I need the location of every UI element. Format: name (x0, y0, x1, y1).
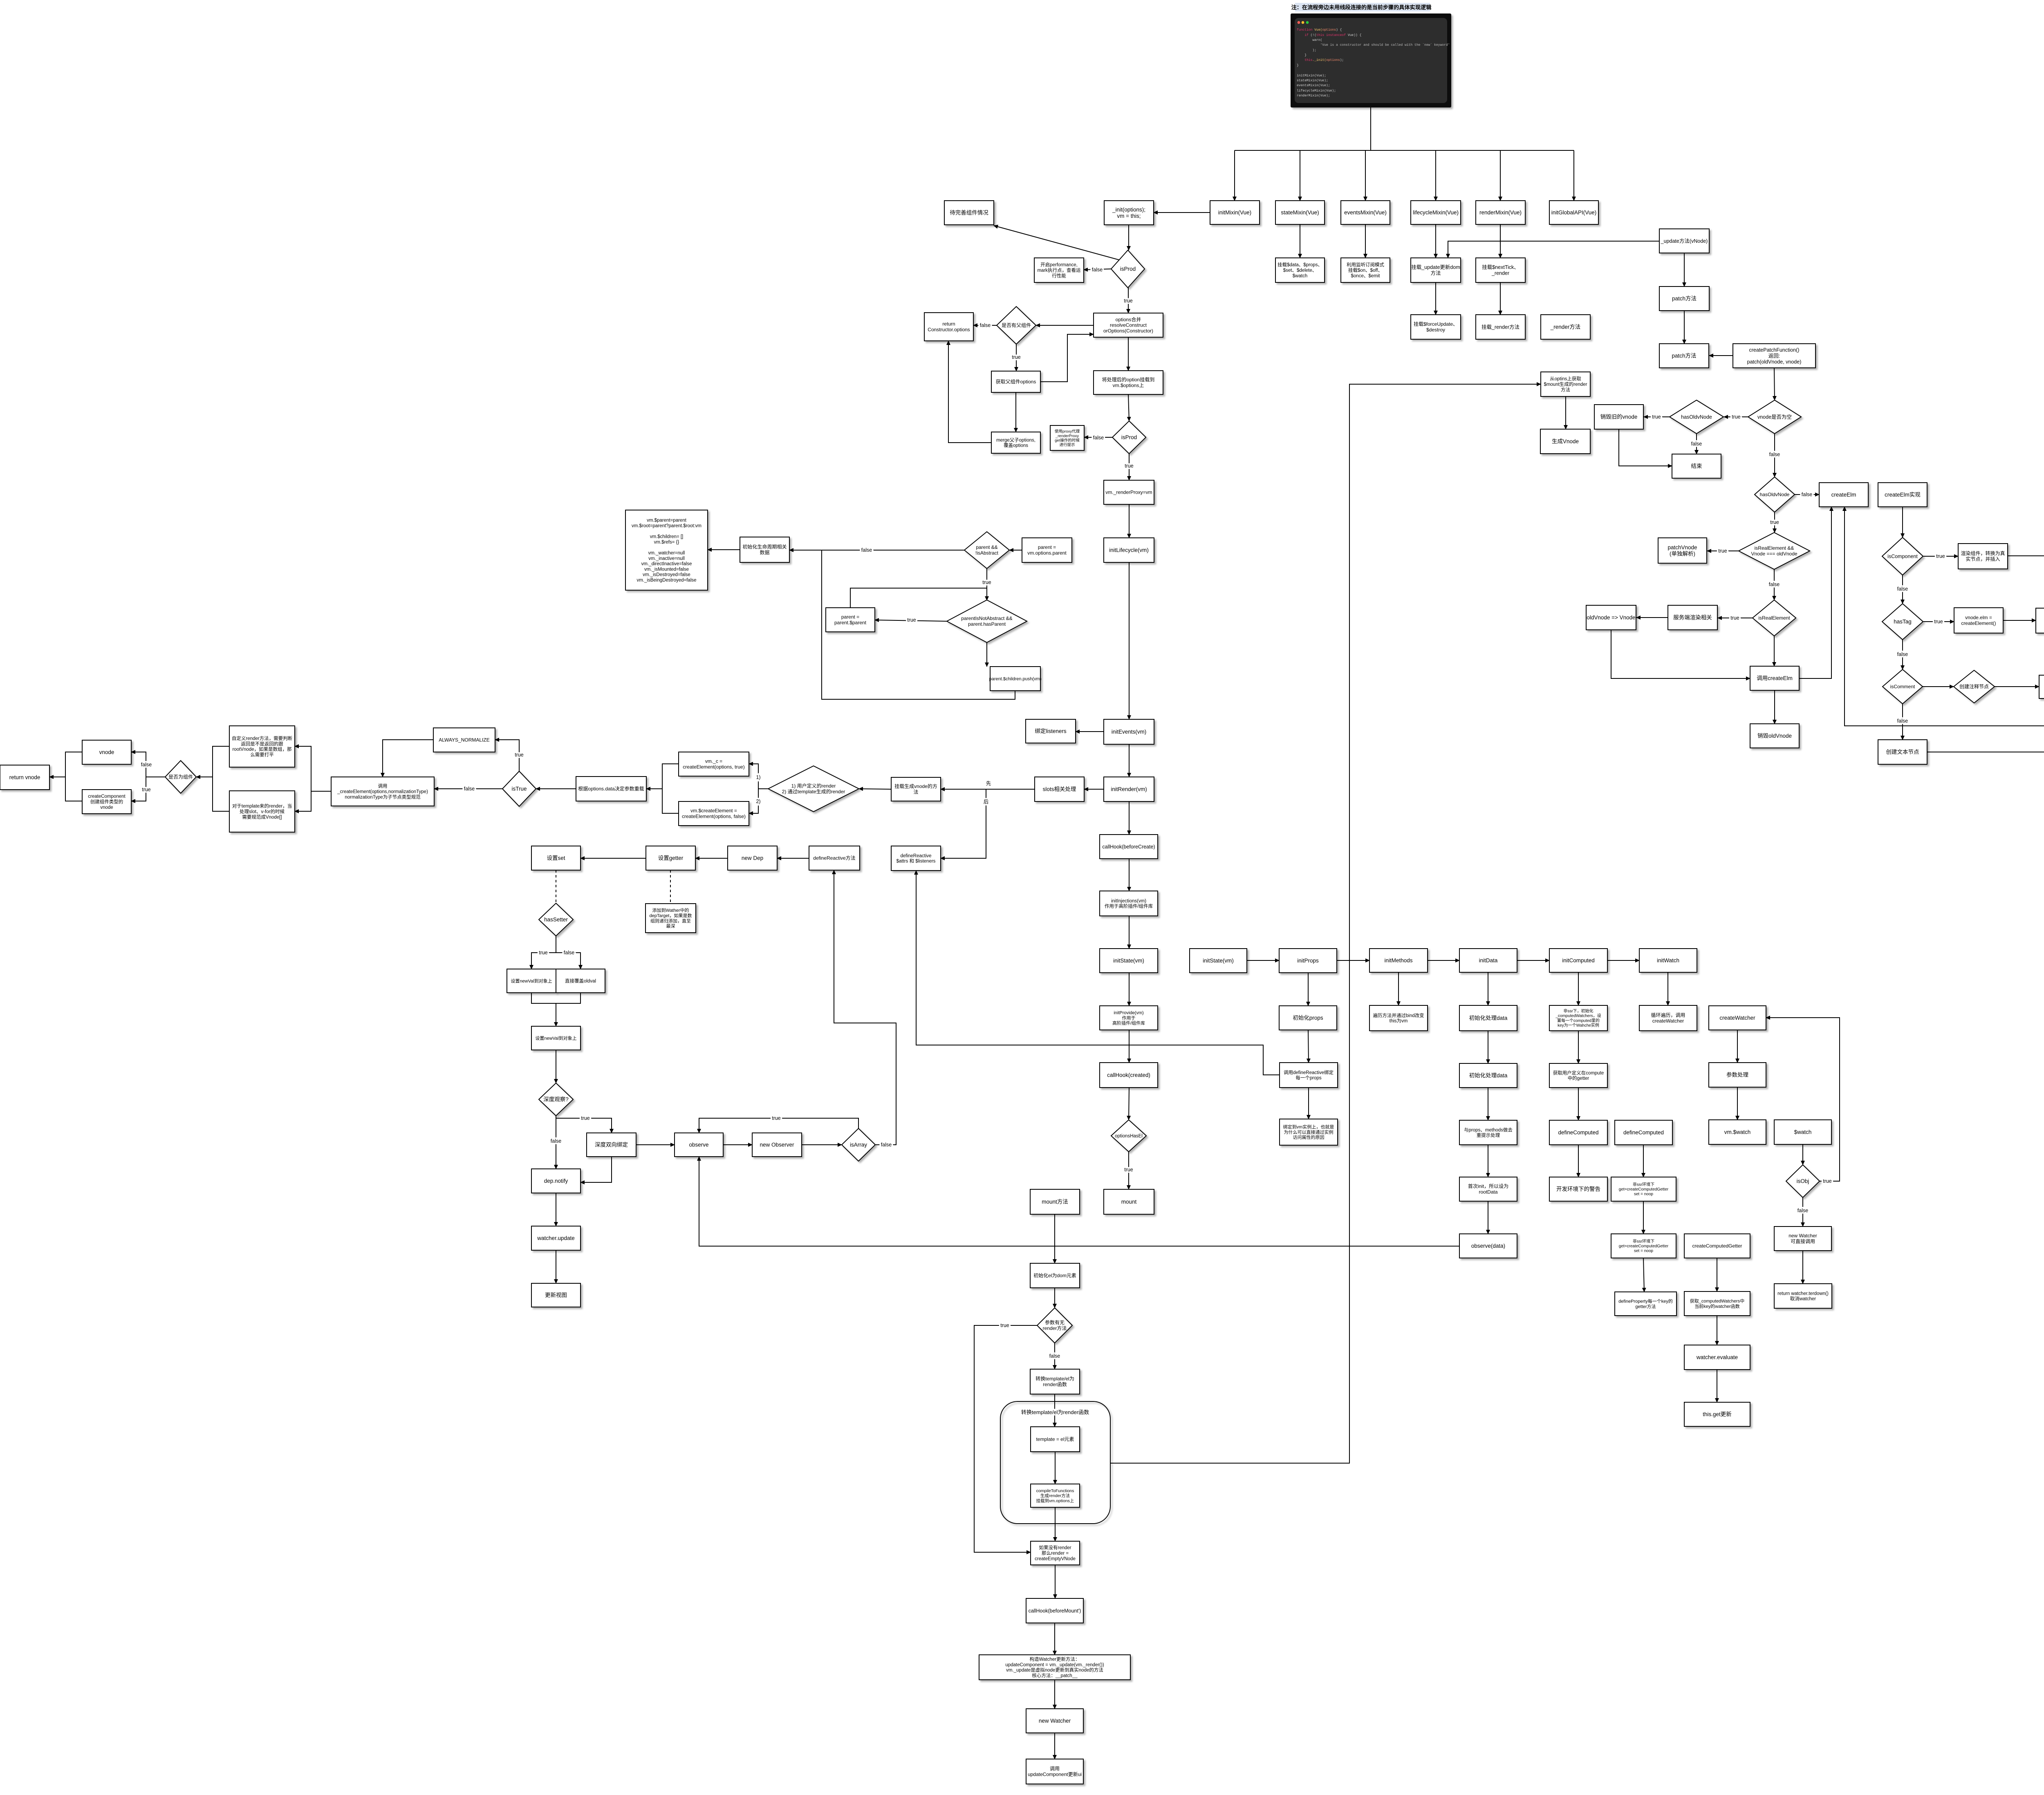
wire (213, 746, 229, 777)
wire (1129, 562, 1130, 719)
wire (556, 870, 556, 903)
wire (1488, 1145, 1488, 1177)
svg-text:isObj: isObj (1797, 1178, 1809, 1184)
wire isArray false-&gt;defineReactive (834, 870, 896, 1145)
wire (1902, 575, 1903, 604)
节点 自定义render方法，需要判断 (229, 726, 295, 767)
wire 调用defineReactive-&gt;$attrs (916, 871, 1280, 1075)
svg-text:ALWAYS_NORMALIZE: ALWAYS_NORMALIZE (439, 737, 489, 743)
svg-text:true: true (1652, 414, 1661, 420)
wire (1128, 394, 1129, 421)
节点 开发环境下的警告 (1549, 1177, 1607, 1201)
wire (1084, 437, 1112, 438)
svg-text:lifecycleMixin(Vue): lifecycleMixin(Vue) (1413, 210, 1459, 216)
节点 直接覆盖oldval (556, 969, 605, 993)
节点 利用监听订阅模式 (1341, 258, 1390, 282)
节点 defineComputed (1549, 1120, 1607, 1145)
wire (1398, 972, 1399, 1005)
wire (986, 642, 987, 667)
节点 参数处理 (1709, 1063, 1766, 1087)
节点 挂载生成vnode的方 (891, 777, 941, 801)
svg-text:调用createElm: 调用createElm (1757, 675, 1793, 681)
svg-text:true: true (1732, 414, 1741, 420)
节点 非ssr环境下 (1611, 1177, 1676, 1201)
wire (1774, 690, 1775, 724)
svg-text:initLifecycle(vm): initLifecycle(vm) (1109, 547, 1149, 553)
svg-text:false: false (1092, 267, 1103, 273)
wire (1076, 731, 1104, 732)
svg-text:}: } (1297, 54, 1307, 57)
svg-text:利用监听订阅模式挂载$on、$off、$once、$emit: 利用监听订阅模式挂载$on、$off、$once、$emit (1347, 262, 1384, 279)
svg-text:observe: observe (689, 1142, 708, 1148)
节点 挂载_update更新dom (1411, 258, 1461, 282)
svg-text:初始化props: 初始化props (1293, 1014, 1323, 1021)
wire 调用createElm-&gt;createElm (1799, 507, 1831, 678)
wire (875, 620, 947, 621)
wire (1370, 107, 1371, 150)
wire (556, 1050, 556, 1083)
节点 挂载$forceUpdate、 (1411, 315, 1461, 339)
节点 开启performance, (1034, 258, 1084, 282)
节点 patch方法 (1659, 286, 1709, 311)
节点 parent.$children.push(vm) (990, 667, 1040, 691)
节点 调用 (1026, 1759, 1083, 1784)
svg-text:stateMixin(Vue): stateMixin(Vue) (1281, 210, 1319, 216)
判断 vnode是否为空 (1748, 400, 1801, 434)
节点 调用defineReactive绑定 (1280, 1063, 1338, 1088)
节点 服务端渲染相关 (1668, 605, 1717, 630)
wire observe(data)-&gt;observe (699, 1157, 1459, 1246)
wire (1607, 960, 1639, 961)
svg-text:设置newVal到对象上: 设置newVal到对象上 (511, 978, 552, 984)
节点 watcher.update (531, 1226, 580, 1250)
svg-text:false: false (1769, 582, 1780, 587)
wire (1902, 507, 1903, 537)
wire (1054, 1394, 1055, 1427)
svg-text:warn(: warn( (1297, 38, 1322, 42)
svg-text:true: true (1124, 298, 1133, 304)
wire (1774, 636, 1775, 666)
wire (1365, 224, 1366, 258)
wire (1684, 311, 1685, 344)
wire (531, 953, 556, 969)
节点 options合并 (1094, 313, 1163, 337)
wire (1902, 704, 1903, 740)
svg-text:isRealElement: isRealElement (1758, 615, 1790, 621)
节点 stateMixin(Vue) (1275, 201, 1325, 224)
wire (1055, 1452, 1056, 1484)
wire (1707, 551, 1739, 551)
wire (1737, 1087, 1738, 1120)
wire (1643, 1201, 1644, 1234)
wire (536, 788, 576, 789)
wire (1667, 972, 1668, 1005)
wire (556, 1250, 556, 1283)
判断 isProd (1111, 250, 1145, 288)
svg-text:new Watcher: new Watcher (1039, 1718, 1071, 1724)
wire (65, 752, 82, 777)
svg-text:创建文本节点: 创建文本节点 (1886, 749, 1919, 755)
svg-text:isRealElement &&Vnode === oldV: isRealElement &&Vnode === oldVnode (1751, 545, 1797, 557)
判断 isObj (1786, 1165, 1820, 1197)
节点 parent = (826, 608, 875, 632)
wire isObj-&gt;createWatcher (1766, 1018, 1840, 1181)
wire (749, 789, 758, 813)
svg-text:new Dep: new Dep (742, 855, 763, 861)
节点 initState(vm) (1190, 949, 1247, 973)
wire (1774, 434, 1775, 477)
svg-text:是否为组件: 是否为组件 (168, 774, 193, 780)
svg-text:false: false (980, 322, 991, 328)
节点 createPatchFunction() (1733, 344, 1815, 368)
节点 slots相关处理 (1035, 777, 1084, 801)
svg-text:设置set: 设置set (547, 855, 565, 861)
判断 parentIsNotAbstract &amp;&amp; (947, 600, 1027, 642)
wire (1009, 550, 1022, 551)
节点 createElm实现 (1878, 483, 1927, 507)
svg-text:optionsHasEl: optionsHasEl (1115, 1134, 1143, 1139)
svg-text:true: true (1770, 519, 1779, 525)
svg-text:false: false (564, 950, 574, 956)
svg-text:销毁旧的vnode: 销毁旧的vnode (1600, 414, 1638, 420)
节点 设置getter (646, 846, 695, 870)
svg-text:false: false (1049, 1353, 1060, 1359)
wire (859, 789, 891, 789)
节点 获取父组件options (991, 371, 1040, 392)
节点 defineReactive方法 (809, 846, 860, 870)
wire (1365, 150, 1366, 201)
节点 调用 (331, 777, 434, 806)
svg-text:1) 用户定义的render2) 通过template生成的: 1) 用户定义的render2) 通过template生成的render (782, 783, 845, 795)
wire (1517, 960, 1549, 961)
节点 初始化处理data (1459, 1005, 1517, 1031)
wire (1234, 150, 1235, 201)
节点 initLifecycle(vm) (1104, 538, 1154, 562)
节点 结束 (1672, 454, 1721, 478)
节点 绑定listeners (1026, 719, 1076, 743)
wire (1015, 392, 1016, 432)
wire (2003, 620, 2036, 621)
节点 初始化props (1279, 1006, 1337, 1030)
wire (1802, 1197, 1803, 1227)
节点 转换template/el为 (1030, 1369, 1080, 1394)
svg-text:initRender(vm): initRender(vm) (1111, 786, 1147, 792)
wire (531, 993, 580, 1003)
节点 挂载$data、$props、 (1275, 258, 1325, 282)
wire (131, 752, 146, 777)
wire (695, 858, 728, 859)
svg-text:false: false (1797, 1208, 1808, 1213)
svg-text:true: true (1934, 619, 1943, 624)
wire (986, 568, 987, 600)
wire (1795, 494, 1819, 495)
wire (1737, 1030, 1738, 1063)
wire (580, 858, 646, 859)
节点 initGlobalAPI(Vue) (1549, 201, 1598, 224)
wire (295, 746, 311, 791)
svg-text:isTrue: isTrue (511, 786, 527, 792)
svg-text:创建注释节点: 创建注释节点 (1959, 683, 1989, 689)
wire (1488, 1201, 1488, 1234)
svg-text:eventsMixin(Vue);: eventsMixin(Vue); (1297, 84, 1330, 87)
svg-text:$watch: $watch (1794, 1129, 1812, 1135)
svg-text:hasTag: hasTag (1894, 619, 1912, 625)
节点 createComputedGetter (1684, 1234, 1750, 1258)
wire (850, 588, 987, 608)
wire (1054, 1343, 1055, 1369)
svg-text:callHook(created): callHook(created) (1107, 1072, 1150, 1078)
wire (948, 341, 991, 443)
wire 后-&gt;defineReactive$attrs (941, 789, 986, 858)
svg-text:待完善组件情况: 待完善组件情况 (950, 210, 988, 216)
svg-text:false: false (1897, 718, 1908, 724)
svg-text:true: true (1823, 1178, 1832, 1184)
节点 initState(vm) (1100, 949, 1158, 973)
节点 setScope (2036, 608, 2044, 633)
wire (1084, 269, 1111, 270)
节点 mount方法 (1030, 1189, 1080, 1214)
svg-text:defineComputed: defineComputed (1623, 1130, 1664, 1136)
wire (1488, 972, 1488, 1005)
wire (65, 777, 82, 801)
wire (1308, 1030, 1309, 1063)
判断 参数有无 (1037, 1308, 1072, 1343)
svg-text:);: ); (1297, 49, 1316, 52)
svg-text:isComment: isComment (1890, 684, 1915, 689)
svg-text:1): 1) (756, 774, 760, 780)
wire (1435, 224, 1436, 258)
wire (1129, 454, 1130, 480)
节点 initData (1459, 949, 1517, 972)
wire (1774, 368, 1775, 400)
节点 渲染组件，转换为真 (1958, 544, 2008, 569)
wire (1902, 640, 1903, 669)
wire (1578, 972, 1579, 1005)
wire (1128, 224, 1129, 250)
节点 添加到Wather中的 (645, 904, 696, 933)
wire (1128, 1152, 1129, 1189)
wire (1428, 960, 1459, 961)
svg-text:lifecycleMixin(Vue);: lifecycleMixin(Vue); (1297, 89, 1336, 93)
节点 挂载_render方法 (1476, 315, 1525, 339)
节点 设置newVal到对象上 (531, 1026, 580, 1050)
wire (131, 777, 146, 801)
svg-text:initWatch: initWatch (1657, 958, 1679, 964)
wire (1636, 617, 1668, 618)
wire (1129, 973, 1130, 1006)
节点 createComponent (82, 790, 131, 814)
判断 isTrue (502, 771, 536, 806)
svg-text:获取_computedWatchers中当前key的watc: 获取_computedWatchers中当前key的watcher函数 (1690, 1298, 1744, 1309)
节点 从optins上获取 (1541, 372, 1590, 396)
wire (495, 740, 519, 771)
wire (1128, 337, 1129, 371)
节点 深度双向绑定 (587, 1133, 636, 1157)
wire isProd-&gt;待完善组件情况 (994, 226, 1119, 260)
svg-text:initState(vm): initState(vm) (1113, 958, 1144, 964)
节点 更新视图 (531, 1283, 580, 1307)
wire (1774, 569, 1775, 600)
svg-text:if (!(this instanceof Vue)) {: if (!(this instanceof Vue)) { (1297, 34, 1362, 37)
节点 _render方法 (1541, 315, 1590, 339)
svg-text:initState(vm): initState(vm) (1203, 958, 1234, 964)
wire 渲染组件-&gt;insert窗口 (2008, 492, 2044, 556)
svg-text:_render方法: _render方法 (1550, 324, 1581, 330)
svg-text:生成Vnode: 生成Vnode (1552, 439, 1579, 445)
节点 销毁旧的vnode (1594, 405, 1643, 429)
svg-text:是否有父组件: 是否有父组件 (1002, 322, 1031, 328)
wire (1643, 1145, 1644, 1177)
节点 循环遍历，调用 (1639, 1005, 1697, 1031)
svg-text:parent &&!isAbstract: parent &&!isAbstract (975, 544, 999, 556)
节点 initRender(vm) (1104, 777, 1154, 801)
svg-text:slots相关处理: slots相关处理 (1043, 786, 1076, 792)
svg-text:isComponent: isComponent (1887, 553, 1918, 559)
svg-text:挂载_render方法: 挂载_render方法 (1481, 324, 1520, 330)
svg-text:vm.$createElement =createEleme: vm.$createElement =createElement(options… (682, 808, 746, 819)
节点 遍历方法并通过bind改变 (1369, 1005, 1428, 1031)
wire (1923, 556, 1958, 557)
svg-text:true: true (581, 1115, 590, 1121)
svg-text:callHook(beforeMount'): callHook(beforeMount') (1029, 1608, 1081, 1614)
svg-text:参数有无render方法: 参数有无render方法 (1043, 1319, 1067, 1331)
svg-text:直接覆盖oldval: 直接覆盖oldval (565, 978, 596, 984)
wire (1717, 1258, 1717, 1291)
svg-text:initEvents(vm): initEvents(vm) (1112, 729, 1147, 735)
节点 _update方法(vNode) (1659, 229, 1709, 253)
节点 createWatcher (1709, 1006, 1766, 1030)
svg-text:渲染组件，转换为真实节点，并插入: 渲染组件，转换为真实节点，并插入 (1961, 550, 2005, 562)
节点 renderMixin(Vue) (1476, 201, 1525, 224)
wire (580, 1157, 612, 1182)
节点 parent = (1022, 538, 1072, 562)
svg-text:initProps: initProps (1297, 958, 1319, 964)
节点 待完善组件情况 (944, 201, 994, 225)
节点 initMethods (1369, 949, 1428, 972)
wire (1036, 325, 1094, 326)
svg-text:mount: mount (1121, 1199, 1137, 1205)
svg-text:获取父组件options: 获取父组件options (996, 379, 1036, 385)
wire (1565, 396, 1566, 429)
节点 ALWAYS_NORMALIZE (433, 728, 495, 752)
wire (723, 1144, 752, 1145)
svg-text:parentIsNotAbstract &&parent.h: parentIsNotAbstract &&parent.hasParent (961, 615, 1012, 627)
svg-text:true: true (907, 617, 916, 623)
wire (1573, 150, 1574, 201)
svg-text:初始化处理data: 初始化处理data (1469, 1015, 1508, 1021)
svg-text:true: true (515, 752, 524, 758)
节点 initComputed (1549, 949, 1607, 972)
svg-text:hasOldvNode: hasOldvNode (1681, 414, 1712, 420)
节点 initProvide(vm) (1100, 1006, 1158, 1030)
节点 new Watcher (1774, 1227, 1831, 1251)
svg-text:parent.$children.push(vm): parent.$children.push(vm) (989, 676, 1042, 681)
wire (1247, 960, 1279, 961)
svg-text:销毁oldVnode: 销毁oldVnode (1757, 733, 1792, 739)
wire (1308, 1088, 1309, 1119)
svg-text:false: false (1897, 586, 1908, 592)
节点 vm._renderProxy=vm (1104, 480, 1154, 504)
wire (1337, 960, 1369, 961)
svg-text:this.get更新: this.get更新 (1703, 1411, 1732, 1417)
容器 转换template/el为render函数 (1000, 1401, 1110, 1524)
wire (295, 791, 311, 811)
节点 vnode.elm = (1954, 608, 2003, 633)
wire (1488, 1031, 1488, 1063)
节点 设置set (531, 846, 580, 870)
判断 是否为组件 (165, 761, 196, 793)
svg-text:_update方法(vNode): _update方法(vNode) (1661, 238, 1708, 244)
wire 参数true-&gt;如果没有render (974, 1325, 1037, 1552)
svg-text:根据options.data决定参数重载: 根据options.data决定参数重载 (578, 786, 644, 792)
svg-text:initData: initData (1479, 958, 1498, 964)
wire (1129, 916, 1130, 949)
节点 非ssr环境下 (1611, 1234, 1676, 1258)
wire (662, 789, 679, 813)
wire (556, 1193, 556, 1226)
wire (1724, 416, 1748, 417)
svg-text:false: false (1802, 492, 1812, 497)
svg-text:stateMixin(Vue);: stateMixin(Vue); (1297, 79, 1328, 83)
wire (1129, 744, 1130, 777)
节点 调用insert (2039, 675, 2044, 698)
节点 vnode (82, 740, 131, 764)
节点 _init(options); (1104, 201, 1154, 225)
wire (1500, 150, 1501, 201)
svg-text:false: false (1769, 452, 1780, 457)
节点 defineProperty每一个key的 (1615, 1292, 1676, 1316)
wire (1300, 150, 1300, 201)
svg-text:renderMixin(Vue);: renderMixin(Vue); (1297, 94, 1330, 98)
节点 oldVnode =&gt; Vnode (1586, 605, 1636, 630)
svg-text:更新视图: 更新视图 (545, 1292, 567, 1298)
svg-text:initGlobalAPI(Vue): initGlobalAPI(Vue) (1551, 210, 1597, 216)
节点 dep.notify (531, 1169, 580, 1193)
判断 parent &amp;&amp; (964, 532, 1009, 568)
wire (213, 777, 229, 811)
svg-text:vnode是否为空: vnode是否为空 (1757, 414, 1792, 420)
wire (1500, 282, 1501, 315)
svg-text:initMethods: initMethods (1384, 958, 1412, 964)
节点 return watcher.terdown() (1774, 1284, 1832, 1308)
wire (556, 953, 580, 969)
svg-text:new Observer: new Observer (760, 1142, 794, 1148)
节点 callHook(beforeCreate) (1100, 835, 1158, 859)
svg-text:patch方法: patch方法 (1672, 353, 1696, 359)
svg-text:compileToFunctions生成render方法挂载: compileToFunctions生成render方法挂载到vm.option… (1036, 1488, 1074, 1503)
wire (383, 740, 433, 777)
svg-text:function Vue(options) {: function Vue(options) { (1297, 28, 1342, 32)
svg-text:注：在流程旁边未用线段连接的是当前步骤的具体实现逻辑: 注：在流程旁边未用线段连接的是当前步骤的具体实现逻辑 (1291, 4, 1432, 11)
节点 初始化el为dom元素 (1030, 1263, 1080, 1288)
svg-text:createElm实现: createElm实现 (1885, 492, 1921, 498)
wire (1435, 150, 1436, 201)
节点 template = el元素 (1031, 1427, 1080, 1452)
svg-text:dep.notify: dep.notify (544, 1178, 568, 1184)
节点 callHook(created) (1100, 1063, 1158, 1088)
节点 initInjections(vm) (1100, 891, 1158, 916)
wire (1578, 1088, 1579, 1120)
判断 isRealElement &amp;&amp; (1739, 533, 1810, 569)
节点 绑定到vm实例上，也就是 (1280, 1119, 1338, 1145)
节点 new Observer (752, 1133, 802, 1157)
节点 initMixin(Vue) (1210, 201, 1260, 224)
wire (556, 936, 556, 953)
判断 是否有父组件 (997, 307, 1036, 344)
svg-text:isProd: isProd (1120, 266, 1136, 272)
节点 $watch (1774, 1120, 1831, 1144)
wire (1016, 344, 1017, 371)
